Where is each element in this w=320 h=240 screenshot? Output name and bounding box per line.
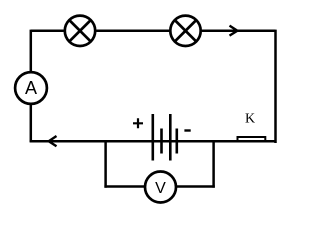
battery B1: long plate 2 (169, 114, 172, 161)
battery B1: long plate 1 (152, 114, 155, 161)
voltmeter V1 circle (145, 172, 176, 203)
svg-text:A: A (25, 78, 37, 98)
wire: right vertical (274, 30, 277, 143)
battery polarity label + (133, 118, 143, 128)
current arrow (top, pointing right) (230, 26, 238, 36)
lamp X2 (right bulb) (170, 16, 200, 46)
wire: voltmeter branch horizontal (104, 185, 214, 188)
battery polarity label - (184, 129, 190, 131)
wire: top horizontal (31, 30, 276, 33)
battery B1: short plate 2 (176, 129, 179, 154)
wire: bottom horizontal (30, 140, 276, 143)
battery B1: short plate 1 (160, 129, 163, 154)
lamp X1 (left bulb) (65, 16, 95, 46)
svg-text:V: V (155, 180, 166, 197)
wire: voltmeter branch right vertical (212, 141, 215, 188)
svg-text:K: K (245, 112, 255, 127)
current arrow (bottom, pointing left) (49, 136, 57, 146)
wire: left vertical (30, 30, 33, 142)
ammeter A1 circle (15, 72, 47, 104)
switch K (238, 137, 266, 142)
wire: voltmeter branch left vertical (104, 141, 107, 188)
